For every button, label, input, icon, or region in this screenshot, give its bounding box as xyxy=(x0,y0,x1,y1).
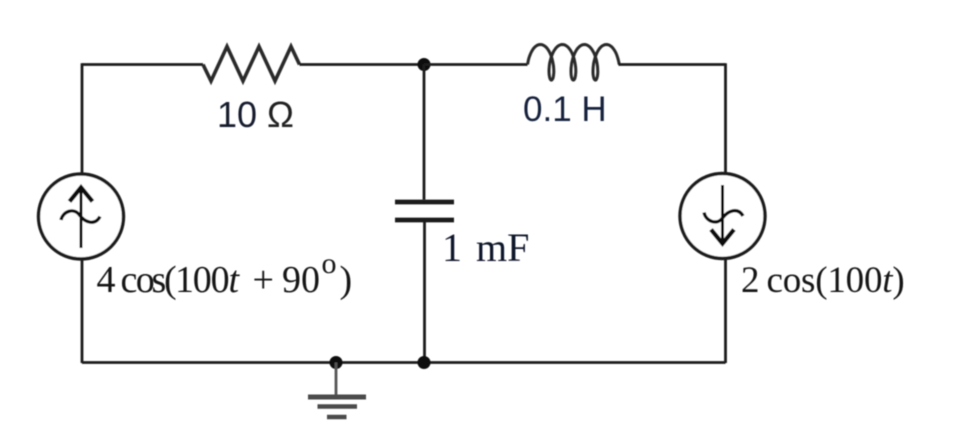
wire resistor to node A xyxy=(300,63,425,66)
svg-text:0.1 H: 0.1 H xyxy=(523,90,607,129)
svg-text:2 cos(100t): 2 cos(100t) xyxy=(741,260,904,301)
current source I1 arrow (up) xyxy=(80,190,83,248)
current source I1 sine tilde xyxy=(61,211,100,222)
inductor L (0.1 H) coil xyxy=(528,45,620,81)
resistor R (10 ohm) zigzag xyxy=(203,47,300,82)
ground stub xyxy=(335,363,338,396)
current source I2 arrow (down) xyxy=(721,185,724,240)
wire inductor to top-right corner xyxy=(619,63,726,66)
capacitor C (1 mF) top plate xyxy=(395,200,454,205)
current source I2 sine tilde xyxy=(704,211,743,222)
wire right vertical lower xyxy=(724,258,727,363)
wire bottom horizontal xyxy=(82,361,726,364)
svg-text:10 Ω: 10 Ω xyxy=(217,94,294,135)
wire middle vertical upper (node A to capacitor) xyxy=(423,65,426,200)
svg-text:4cos(100t+90o): 4cos(100t+90o) xyxy=(97,247,353,301)
wire left vertical lower xyxy=(81,259,84,363)
wire middle vertical lower (capacitor to bottom) xyxy=(423,222,426,363)
capacitor C bottom plate xyxy=(395,218,454,223)
wire top-left horizontal xyxy=(82,63,203,66)
current source I2 circle xyxy=(680,174,765,259)
ground bar 2 xyxy=(318,404,358,409)
wire right vertical upper xyxy=(724,63,727,175)
node A dot (top of capacitor) xyxy=(418,58,431,71)
svg-text:1 mF: 1 mF xyxy=(442,225,529,270)
node dot capacitor bottom junction xyxy=(418,356,431,369)
ground bar 3 xyxy=(327,415,347,420)
wire node A to inductor xyxy=(424,63,528,66)
ground bar 1 xyxy=(308,395,366,400)
current source I1 circle xyxy=(39,174,124,259)
node dot ground junction xyxy=(330,356,343,369)
wire left vertical upper xyxy=(81,63,84,174)
